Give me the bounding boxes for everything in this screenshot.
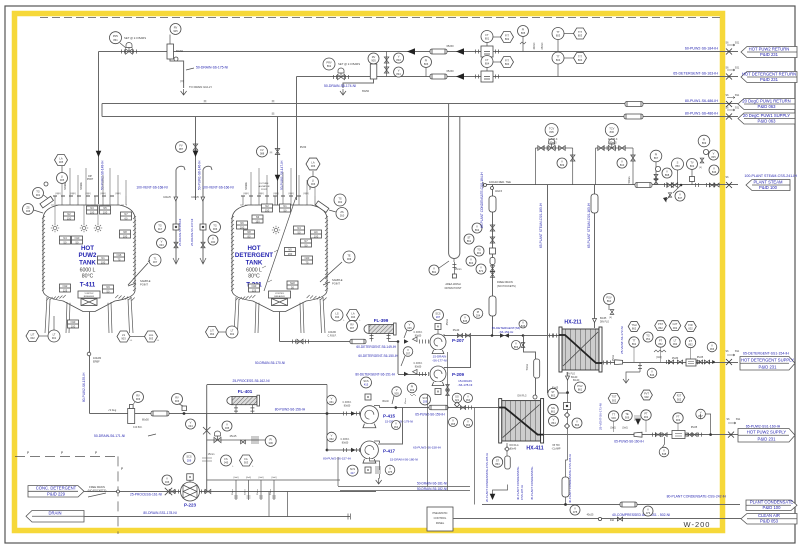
svg-text:PT: PT xyxy=(659,338,663,342)
svg-text:033: 033 xyxy=(159,243,164,247)
connector flag PLANT STEAM xyxy=(746,180,790,191)
svg-text:PUW2: PUW2 xyxy=(79,252,97,259)
svg-text:ST: ST xyxy=(551,390,555,394)
instrument V-846a xyxy=(519,320,527,328)
svg-text:LI: LI xyxy=(61,174,63,178)
svg-text:V: V xyxy=(651,369,653,373)
svg-text:[0]: [0] xyxy=(272,101,275,103)
svg-text:902: 902 xyxy=(644,415,649,419)
svg-text:P-415: P-415 xyxy=(383,414,396,419)
pump P-209 xyxy=(398,374,427,376)
tank T-411 top nozzle stubs xyxy=(55,196,126,205)
svg-text:TS: TS xyxy=(338,196,342,200)
wash point stem xyxy=(453,262,455,274)
svg-text:(NO POCKETS): (NO POCKETS) xyxy=(88,489,107,493)
svg-text:891: 891 xyxy=(432,270,437,274)
svg-text:-S6-177-NI: -S6-177-NI xyxy=(432,359,447,363)
svg-text:TCV: TCV xyxy=(549,126,554,130)
svg-text:V: V xyxy=(467,419,469,423)
svg-text:50-DRAIN-S6-181-NI: 50-DRAIN-S6-181-NI xyxy=(417,482,447,486)
instrument TS-002 right of T-211 xyxy=(334,194,346,206)
svg-text:100x40 RED. TEE: 100x40 RED. TEE xyxy=(489,180,511,184)
svg-text:45x80: 45x80 xyxy=(672,358,679,360)
svg-text:FT: FT xyxy=(485,33,489,37)
svg-text:TT: TT xyxy=(556,30,560,34)
svg-text:863: 863 xyxy=(469,261,474,265)
svg-text:306: 306 xyxy=(213,227,218,231)
svg-text:P&ID 100: P&ID 100 xyxy=(759,185,778,190)
svg-text:V: V xyxy=(166,476,168,480)
svg-text:DIN FLG: DIN FLG xyxy=(509,445,518,447)
control station TCV-805 xyxy=(545,124,558,137)
svg-text:V: V xyxy=(190,420,192,424)
svg-text:[0][0]: [0][0] xyxy=(259,193,264,195)
svg-text:80x50: 80x50 xyxy=(415,334,422,337)
svg-text:861: 861 xyxy=(578,388,583,392)
svg-text:V: V xyxy=(212,236,214,240)
svg-text:051: 051 xyxy=(646,337,651,341)
node junction x=492 xyxy=(491,334,494,337)
svg-text:P&ID 100: P&ID 100 xyxy=(763,505,782,510)
svg-text:LI: LI xyxy=(312,178,314,182)
svg-text:P&ID 231: P&ID 231 xyxy=(758,437,777,442)
svg-text:[0][0]: [0][0] xyxy=(274,193,279,195)
valves P-207 suction xyxy=(404,339,409,344)
instrument FIT-804 hex xyxy=(501,56,514,67)
wire detergent return drop x=296.5 xyxy=(296,77,298,201)
svg-text:903: 903 xyxy=(136,397,141,401)
svg-text:65-DETERGENT-SS1-154-IH: 65-DETERGENT-SS1-154-IH xyxy=(743,352,789,356)
svg-text:209: 209 xyxy=(187,459,192,463)
svg-text:PI: PI xyxy=(703,137,706,141)
svg-text:[0][0]: [0][0] xyxy=(101,193,106,195)
svg-text:FREE DRAIN: FREE DRAIN xyxy=(497,280,513,284)
svg-text:006: 006 xyxy=(311,164,316,168)
hose on y=413 xyxy=(151,411,169,416)
svg-text:TCV: TCV xyxy=(609,126,614,130)
connector flag 20 DegC PUW1 SUPPLY xyxy=(738,113,795,124)
wire tank T-411 fill drop x=98 xyxy=(98,52,100,205)
svg-text:N9: N9 xyxy=(106,285,110,289)
svg-text:V: V xyxy=(331,396,333,400)
svg-text:V: V xyxy=(476,224,478,228)
svg-text:903: 903 xyxy=(611,416,616,420)
wire hot detergent return line y=76.5 xyxy=(297,76,739,78)
svg-text:DOWN POINT: DOWN POINT xyxy=(445,286,462,290)
svg-text:FIT: FIT xyxy=(505,58,509,62)
svg-text:65-DETERGENT-S6-163-IH: 65-DETERGENT-S6-163-IH xyxy=(673,72,718,76)
svg-text:N1: N1 xyxy=(101,256,105,260)
instrument V-867 xyxy=(696,409,706,419)
svg-text:SPARE: SPARE xyxy=(80,182,83,190)
HX-211 condensate bottom stem xyxy=(567,372,569,393)
svg-text:T-411: T-411 xyxy=(80,282,96,289)
svg-text:65-PUW2-S6-160-IH: 65-PUW2-S6-160-IH xyxy=(614,440,644,444)
svg-text:DIN FLG: DIN FLG xyxy=(517,396,526,398)
wire PUW2 supply y=434.6 xyxy=(544,434,738,436)
node fill arrow T-411 xyxy=(96,151,102,157)
valve diamonds on condensate xyxy=(565,413,570,418)
svg-text:TSH: TSH xyxy=(631,323,636,327)
svg-text:LA: LA xyxy=(351,311,354,315)
pump P-223 positive displacement xyxy=(181,482,200,501)
svg-text:HOT DETERGENT SUPPLY: HOT DETERGENT SUPPLY xyxy=(741,358,794,363)
svg-text:20-PLANT CONDENSATE-CSS-185-IH: 20-PLANT CONDENSATE-CSS-185-IH xyxy=(485,453,489,502)
svg-text:HOT PUW2 RETURN: HOT PUW2 RETURN xyxy=(749,46,790,51)
svg-text:50-DRAIN-S6-174-NI: 50-DRAIN-S6-174-NI xyxy=(324,84,356,88)
svg-text:100: 100 xyxy=(71,324,76,328)
svg-text:N6: N6 xyxy=(240,221,244,225)
svg-text:V: V xyxy=(331,433,333,437)
svg-text:65x50: 65x50 xyxy=(176,49,184,53)
wire suction drain drop x=338 xyxy=(337,457,339,486)
svg-text:PI: PI xyxy=(411,384,414,388)
tank T-211 vortex breaker xyxy=(269,291,291,298)
wire 25-PROCESS line y=385 xyxy=(207,384,327,386)
svg-text:100: 100 xyxy=(101,260,106,264)
relief valve RV-903a xyxy=(133,392,144,403)
instrument V-066c xyxy=(464,419,473,428)
instrument LS-034 xyxy=(331,309,343,321)
svg-text:V: V xyxy=(522,320,524,324)
wire 20degC PUW1 supply header y=116.5 xyxy=(102,116,738,118)
wire drain drops left xyxy=(268,492,270,517)
svg-text:N13: N13 xyxy=(252,284,257,288)
svg-text:847: 847 xyxy=(678,196,683,200)
svg-text:075: 075 xyxy=(388,470,393,474)
wire steam drop to HX-411 x=547 xyxy=(547,185,549,394)
svg-text:80-DRAIN-SS1-178-NI: 80-DRAIN-SS1-178-NI xyxy=(143,511,176,515)
node fill arrow T-211 xyxy=(275,175,281,181)
svg-text:45x25: 45x25 xyxy=(587,514,594,517)
valve PRV-862 with regulator xyxy=(323,58,335,70)
svg-text:V: V xyxy=(396,388,398,392)
heat exchanger HX-411 flow diagonals xyxy=(499,408,544,435)
svg-text:V: V xyxy=(409,322,411,326)
svg-text:65-PLANT CONDENSATE-CSS-184-IH: 65-PLANT CONDENSATE-CSS-184-IH xyxy=(480,171,484,228)
svg-text:[0x0]: [0x0] xyxy=(611,428,616,430)
wire detergent supply y=362 xyxy=(602,362,738,364)
svg-text:002: 002 xyxy=(673,326,678,330)
svg-text:905: 905 xyxy=(173,29,178,33)
svg-text:035: 035 xyxy=(225,426,230,430)
svg-text:P&ID 063: P&ID 063 xyxy=(758,104,777,109)
valve V-034 column xyxy=(186,419,196,429)
svg-text:45mm: 45mm xyxy=(447,319,449,325)
svg-text:65x40: 65x40 xyxy=(453,329,460,332)
dashed margin line top xyxy=(40,17,722,19)
svg-text:306: 306 xyxy=(269,441,274,445)
svg-text:[0x0]: [0x0] xyxy=(657,357,662,359)
svg-text:V: V xyxy=(407,348,409,352)
valve cross xyxy=(165,488,172,495)
svg-text:150: 150 xyxy=(255,219,260,223)
svg-text:005: 005 xyxy=(59,160,64,164)
instrument V-062b xyxy=(327,432,337,442)
tank T-211 spray ball xyxy=(274,228,277,231)
wire pump suction manifold x=398 xyxy=(397,342,399,375)
svg-text:45-PLANT CONDENSATE-: 45-PLANT CONDENSATE- xyxy=(530,466,534,500)
svg-text:TO DRAIN GULLY: TO DRAIN GULLY xyxy=(189,85,212,89)
instrument V-846b xyxy=(647,368,657,378)
instrument V-848 xyxy=(659,447,669,457)
svg-text:803: 803 xyxy=(578,34,583,38)
wire U seal loop legs xyxy=(449,104,460,259)
svg-text:DETERGENT: DETERGENT xyxy=(235,252,273,259)
instrument V-033 xyxy=(157,238,167,248)
svg-text:002: 002 xyxy=(688,327,693,331)
instrument V-064 xyxy=(392,421,401,430)
svg-text:[0x0]: [0x0] xyxy=(259,477,264,479)
svg-text:ZS: ZS xyxy=(26,205,30,209)
svg-text:TT: TT xyxy=(632,338,636,342)
node flow arrow 2 xyxy=(456,48,464,54)
svg-text:ERBF: ERBF xyxy=(93,361,100,364)
instrument V-845c xyxy=(461,315,470,324)
svg-text:100: 100 xyxy=(123,234,128,238)
svg-text:[0][0]: [0][0] xyxy=(289,193,294,195)
svg-text:TG: TG xyxy=(213,223,217,227)
tank T-411 spray balls xyxy=(53,226,56,229)
wire P-209 discharge elbow xyxy=(444,336,471,368)
wire compressed air y=519 xyxy=(453,518,741,520)
instrument V-863 xyxy=(466,256,476,266)
svg-text:N22: N22 xyxy=(290,281,295,285)
svg-text:066: 066 xyxy=(466,423,471,427)
svg-text:[0x0]: [0x0] xyxy=(272,477,277,479)
svg-text:200: 200 xyxy=(288,252,293,256)
wire P-415 discharge y=407.5 xyxy=(379,407,498,409)
svg-text:905: 905 xyxy=(371,59,376,63)
svg-text:903: 903 xyxy=(394,392,399,396)
svg-text:65-PLANT STEAM-CSS-163-IH: 65-PLANT STEAM-CSS-163-IH xyxy=(587,202,591,248)
svg-text:65-PUW2-S6-158-IH: 65-PUW2-S6-158-IH xyxy=(413,446,441,450)
instrument LT-901 tank1 xyxy=(48,330,60,342)
svg-text:50-PUW1-S6-146-IH: 50-PUW1-S6-146-IH xyxy=(198,160,202,190)
svg-text:40x15: 40x15 xyxy=(495,189,503,193)
svg-text:017: 017 xyxy=(158,227,163,231)
svg-text:TG: TG xyxy=(646,333,650,337)
instrument TT-903 xyxy=(608,411,618,421)
svg-text:V: V xyxy=(226,422,228,426)
svg-text:SS1: SS1 xyxy=(735,94,740,97)
svg-text:846: 846 xyxy=(521,324,526,328)
valve FV-087 on fill drop xyxy=(193,144,198,150)
svg-text:861: 861 xyxy=(551,410,556,414)
connector flag CONC DETERGENT xyxy=(28,486,84,497)
svg-text:↗2 Deg: ↗2 Deg xyxy=(108,409,117,412)
svg-text:FS: FS xyxy=(224,457,228,461)
svg-text:50-PUW1-S6-147-IH: 50-PUW1-S6-147-IH xyxy=(280,160,284,190)
svg-text:005: 005 xyxy=(60,178,65,182)
HX-411 top port xyxy=(533,395,537,399)
svg-text:P&ID 063: P&ID 063 xyxy=(758,119,777,124)
svg-text:N12: N12 xyxy=(63,284,68,288)
svg-text:[0][0]: [0][0] xyxy=(71,193,76,195)
svg-text:850: 850 xyxy=(675,164,680,168)
wire P-417 drain drop xyxy=(369,457,379,470)
vent hook pipe 1 xyxy=(176,166,185,264)
instrument LAL-903 hex xyxy=(145,331,158,342)
svg-text:V: V xyxy=(515,341,517,345)
svg-text:FREE DRAIN: FREE DRAIN xyxy=(89,485,105,489)
svg-text:064: 064 xyxy=(466,398,471,402)
svg-text:801: 801 xyxy=(485,37,490,41)
hex PVT-902 xyxy=(641,390,653,400)
connector flag CLEAN AIR xyxy=(741,514,797,525)
instrument TG-051 xyxy=(643,332,653,342)
svg-text:079: 079 xyxy=(646,511,651,515)
svg-text:V: V xyxy=(389,466,391,470)
tank T-411 thermowell xyxy=(128,263,148,285)
flow element row2 xyxy=(481,71,493,82)
instrument ZS-010 xyxy=(336,208,348,220)
instrument V-868 xyxy=(662,168,672,178)
instrument PSV-864 vent xyxy=(604,294,615,305)
trap box xyxy=(564,403,571,410)
svg-text:030: 030 xyxy=(211,240,216,244)
wire fill drop x=195 xyxy=(195,117,197,201)
svg-text:50-DRAIN-S6-170-NI: 50-DRAIN-S6-170-NI xyxy=(255,361,285,365)
instrument V-079 xyxy=(643,506,653,516)
svg-text:P-207: P-207 xyxy=(452,338,465,343)
svg-text:P&ID 053: P&ID 053 xyxy=(760,519,779,524)
node fill arrow x=195 xyxy=(193,151,199,157)
valves on detergent supply xyxy=(668,360,673,364)
svg-text:FIR: FIR xyxy=(688,323,692,327)
svg-text:PSV: PSV xyxy=(606,295,611,299)
svg-text:007: 007 xyxy=(350,326,355,330)
svg-text:CONTROL: CONTROL xyxy=(434,516,447,520)
svg-text:[0]: [0] xyxy=(609,317,612,319)
eccentric reducer on supply xyxy=(615,360,623,365)
svg-text:N4: N4 xyxy=(297,226,301,230)
svg-text:843: 843 xyxy=(396,58,401,62)
wire condensate vertical x=567 xyxy=(567,393,569,460)
reducing valve body on y=413 xyxy=(128,409,135,424)
instrument SCS-417 xyxy=(347,465,358,476)
svg-text:V: V xyxy=(679,192,681,196)
svg-text:POINT: POINT xyxy=(140,283,148,287)
svg-text:V: V xyxy=(553,417,555,421)
pneumatic control panel box xyxy=(427,507,453,531)
svg-text:80-PUW1-S6-486-IH: 80-PUW1-S6-486-IH xyxy=(685,112,719,116)
svg-text:[0][0]: [0][0] xyxy=(304,193,309,195)
svg-text:60-PUW2-S6-184-IH: 60-PUW2-S6-184-IH xyxy=(685,47,719,51)
svg-text:V: V xyxy=(713,151,715,155)
svg-text:P-223: P-223 xyxy=(184,503,197,508)
svg-text:036: 036 xyxy=(165,480,170,484)
svg-text:FIT: FIT xyxy=(505,33,509,37)
svg-text:DIP: DIP xyxy=(88,176,92,178)
svg-text:100: 100 xyxy=(103,210,108,214)
svg-text:006: 006 xyxy=(311,182,316,186)
svg-text:50mm: 50mm xyxy=(257,489,259,495)
instrument LA-034 hex xyxy=(347,309,360,320)
svg-text:FA: FA xyxy=(244,457,247,461)
wire suction manifold x=327 xyxy=(326,414,328,451)
instrument V-078 xyxy=(570,505,580,515)
svg-text:006: 006 xyxy=(347,257,352,261)
tank T-411 legs xyxy=(45,297,133,333)
sight glass box vent 1 xyxy=(173,224,179,230)
svg-text:25-PROCESS-S6-162-NI: 25-PROCESS-S6-162-NI xyxy=(232,379,269,383)
instrument TG-901 mid xyxy=(474,246,484,256)
hex TSH-862 xyxy=(628,322,640,332)
instrument SG-021 xyxy=(452,393,462,403)
svg-text:LIT: LIT xyxy=(31,332,35,336)
svg-text:HOT DETERGENT RETURN: HOT DETERGENT RETURN xyxy=(742,71,796,76)
drain bowties x=447.5 xyxy=(446,385,450,390)
pump P-417 xyxy=(360,441,378,459)
svg-text:034: 034 xyxy=(188,424,193,428)
svg-text:PNEUMATIC: PNEUMATIC xyxy=(432,511,447,515)
svg-text:[0]: [0] xyxy=(181,79,184,83)
svg-text:LT: LT xyxy=(231,328,234,332)
svg-text:862: 862 xyxy=(658,326,663,330)
black valve at junction xyxy=(500,333,509,337)
svg-text:FV: FV xyxy=(179,143,183,147)
tank T-211 manway xyxy=(315,201,329,213)
svg-text:902: 902 xyxy=(644,395,649,399)
svg-text:V: V xyxy=(398,68,400,72)
svg-text:65x50: 65x50 xyxy=(300,147,307,149)
svg-text:088: 088 xyxy=(260,152,265,156)
svg-text:065: 065 xyxy=(451,422,456,426)
relief valve RV-905 top-left xyxy=(170,24,181,35)
instrument TT-803 xyxy=(552,28,564,40)
node junction x=523 xyxy=(522,334,525,337)
svg-text:092: 092 xyxy=(673,342,678,346)
svg-text:80x65: 80x65 xyxy=(600,318,607,320)
steam reducer xyxy=(635,183,652,188)
wire steam drop to HX-211 x=594 xyxy=(594,185,596,329)
svg-text:P&ID 231: P&ID 231 xyxy=(759,365,778,370)
instrument TG-306 on vent 2 xyxy=(210,222,221,233)
svg-text:TT: TT xyxy=(556,54,560,58)
instrument PI-903 xyxy=(407,383,417,393)
svg-text:845: 845 xyxy=(463,319,468,323)
svg-text:LT: LT xyxy=(53,332,56,336)
drip leg pocket on x=492 xyxy=(489,196,496,212)
instrument V-061b xyxy=(327,395,337,405)
instrument V-075 xyxy=(385,465,395,475)
drip cylinder on condensate xyxy=(562,477,569,497)
tank T-211 dip pipe diagonal xyxy=(264,197,296,291)
svg-text:80-PUW2-S6-156-IH: 80-PUW2-S6-156-IH xyxy=(275,408,306,412)
svg-text:80x50: 80x50 xyxy=(342,441,349,444)
svg-text:037: 037 xyxy=(406,352,411,356)
tank T-411 vortex breaker xyxy=(78,291,100,298)
svg-text:PRV: PRV xyxy=(326,60,332,64)
svg-text:902: 902 xyxy=(230,332,235,336)
svg-text:25mm: 25mm xyxy=(541,43,544,50)
svg-text:80-PUW2-S6-157-IH: 80-PUW2-S6-157-IH xyxy=(323,457,351,461)
tank T-211 nozzle boxes xyxy=(262,204,273,212)
svg-text:80x40: 80x40 xyxy=(382,401,389,403)
svg-text:804: 804 xyxy=(578,58,583,62)
valves on PUW2 supply xyxy=(655,433,660,437)
vent hook 2 drain arrow xyxy=(200,258,206,264)
instrument ST-861 xyxy=(464,234,474,244)
svg-text:TE: TE xyxy=(347,253,351,257)
svg-text:909: 909 xyxy=(625,416,630,420)
svg-text:P-417: P-417 xyxy=(383,449,396,454)
instrument V-843 xyxy=(394,53,404,63)
svg-text:N2: N2 xyxy=(265,204,269,208)
instrument TE-909 xyxy=(622,410,632,420)
svg-text:125: 125 xyxy=(63,288,68,292)
